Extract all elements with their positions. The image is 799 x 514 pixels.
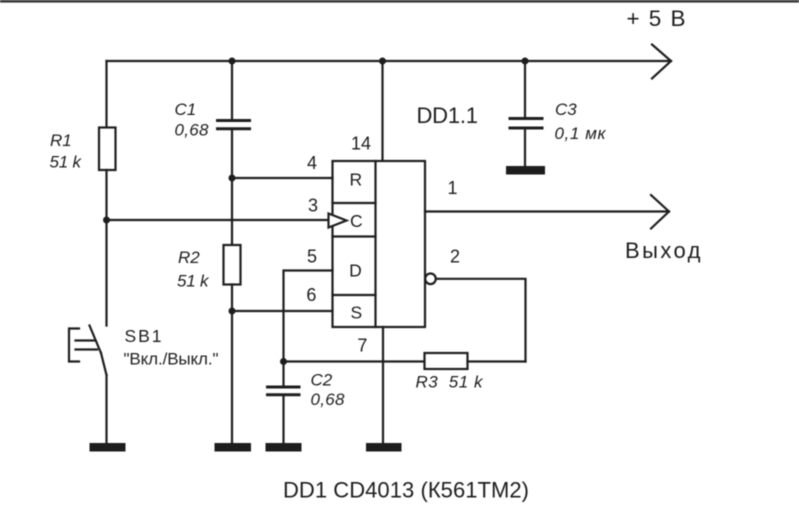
wire +5V top rail (107, 60, 672, 62)
wire SB1 bottom to ground (105, 375, 107, 443)
wire C2 bottom to ground (282, 395, 284, 443)
svg-text:R3 51 k: R3 51 k (416, 373, 485, 392)
node rail-C1 (229, 58, 236, 65)
capacitor C3 (509, 117, 544, 120)
wire C1 bottom to R2 (231, 129, 233, 245)
wire R3 right to corner (468, 360, 526, 362)
svg-text:51 k: 51 k (177, 272, 210, 291)
svg-text:R2: R2 (178, 248, 200, 267)
svg-text:R: R (349, 170, 362, 190)
IC inner divider (374, 161, 376, 327)
svg-text:C: C (350, 211, 363, 231)
svg-text:6: 6 (306, 285, 316, 305)
wire C3 branch from rail (524, 61, 526, 119)
svg-text:51 k: 51 k (50, 153, 83, 172)
wire pin4 line (232, 177, 333, 179)
wire left rail down to R1 (105, 61, 107, 129)
svg-text:+ 5 В: + 5 В (627, 6, 686, 31)
wire C1 branch from rail (231, 61, 233, 121)
svg-text:"Вкл./Выкл.": "Вкл./Выкл." (124, 350, 219, 369)
node R1-pin3 (103, 217, 110, 224)
svg-text:1: 1 (447, 178, 457, 198)
svg-text:14: 14 (351, 134, 371, 154)
ground SB1 (90, 443, 126, 452)
wire C3 to ground bar (524, 128, 526, 166)
SB1 contact lines (76, 339, 95, 341)
svg-text:0,1 мк: 0,1 мк (555, 124, 607, 143)
arrow +5V (652, 45, 671, 79)
wire feedback line C2/R3 (283, 360, 425, 362)
resistor R1 (99, 128, 116, 171)
svg-text:C1: C1 (175, 100, 197, 119)
node rail-pin14 (379, 58, 386, 65)
svg-text:C3: C3 (555, 100, 577, 119)
wire pin7 from IC bottom to ground (382, 327, 384, 443)
ground C3 (506, 166, 545, 175)
wire R2 bottom to ground (231, 285, 233, 444)
top border bar (0, 0, 799, 3)
wire pin2 line (437, 279, 526, 362)
wire pin6 line (232, 310, 333, 312)
wire pin5 line (284, 271, 333, 362)
ground C2 (266, 443, 302, 452)
wire pin14 from rail to IC top (381, 61, 383, 161)
node C1-pin4 (229, 175, 236, 182)
svg-text:R1: R1 (50, 131, 72, 150)
capacitor C1 (216, 119, 251, 122)
svg-text:3: 3 (308, 196, 318, 216)
svg-text:0,68: 0,68 (311, 390, 346, 409)
wire pin3 line (107, 219, 330, 221)
svg-text:DD1.1: DD1.1 (417, 103, 479, 128)
svg-text:D: D (349, 261, 362, 281)
svg-text:S: S (351, 303, 363, 323)
svg-text:C2: C2 (311, 371, 333, 390)
svg-text:0,68: 0,68 (175, 121, 210, 140)
ground pin7 (366, 443, 402, 452)
IC cell divider C/D (333, 235, 376, 237)
wire pin1 output line (425, 210, 669, 212)
capacitor C2 (266, 386, 301, 389)
switch SB1 (69, 326, 107, 376)
IC cell divider D/S (333, 294, 376, 296)
IC cell divider R/C (333, 202, 376, 204)
svg-text:DD1 CD4013 (К561ТМ2): DD1 CD4013 (К561ТМ2) (283, 478, 529, 503)
wire C2 top (282, 362, 284, 388)
svg-text:5: 5 (307, 247, 317, 267)
ground R2 (215, 443, 252, 452)
wire R1 bottom to node (105, 170, 107, 326)
svg-text:SB1: SB1 (125, 326, 162, 346)
node R2-pin6 (229, 308, 236, 315)
SB1 blade (90, 326, 102, 354)
clock triangle (329, 214, 347, 228)
inversion bubble pin2 (425, 274, 436, 285)
op-amp U1 DD1 flip-flop body (333, 161, 426, 327)
svg-text:Выход: Выход (625, 238, 701, 263)
svg-text:2: 2 (450, 247, 460, 267)
arrow output (651, 195, 669, 229)
SB1 actuator bracket (69, 329, 79, 362)
node rail-C3 (522, 58, 529, 65)
svg-text:4: 4 (307, 153, 317, 173)
node C2-feedback (280, 358, 287, 365)
svg-text:7: 7 (357, 336, 367, 356)
resistor R2 (224, 245, 241, 285)
resistor R3 (425, 353, 468, 369)
